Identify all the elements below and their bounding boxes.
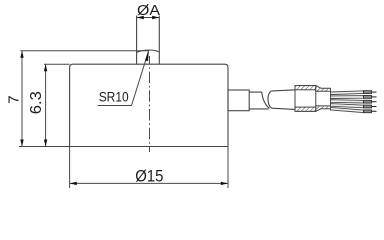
- svg-text:SR10: SR10: [99, 88, 129, 104]
- svg-text:6.3: 6.3: [28, 91, 45, 114]
- svg-text:Ø15: Ø15: [135, 167, 163, 186]
- svg-text:7: 7: [5, 95, 22, 103]
- svg-text:ØA: ØA: [137, 2, 161, 19]
